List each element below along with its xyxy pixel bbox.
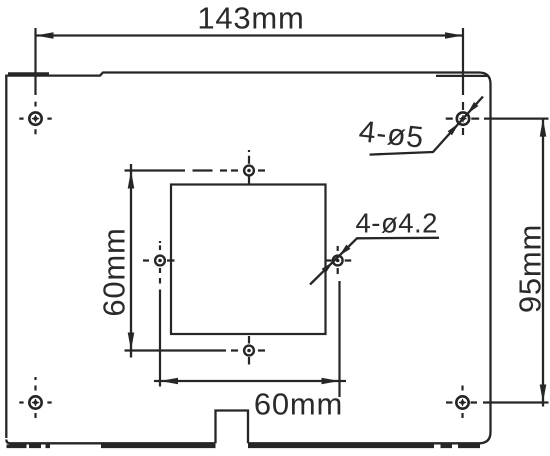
dimension 143mm: text	[197, 0, 304, 35]
svg-text:4-ø4.2: 4-ø4.2	[356, 208, 438, 239]
hole H2 top-right (ø5)	[446, 102, 480, 135]
hole H1 top-left (ø5)	[19, 102, 51, 135]
bottom mounting tab (notch)	[216, 411, 249, 444]
dimension 60mm vertical: text (rotated)	[96, 227, 131, 316]
dimension 60mm horizontal: extension line right (from hole R)	[338, 281, 340, 397]
svg-text:143mm: 143mm	[197, 0, 304, 35]
hole T top-center (ø4.2)	[231, 150, 265, 184]
dimension 60mm horizontal: text	[254, 387, 343, 422]
dimension 95mm: dimension line with arrows	[540, 119, 547, 407]
dimension 143mm: extension line left	[34, 28, 36, 95]
dimension 95mm: extension line bottom (from H3)	[483, 401, 549, 403]
dimension 60mm vertical: extension line bottom	[125, 349, 227, 351]
hole L left-center (ø4.2)	[143, 241, 175, 284]
panel cutout square	[171, 185, 326, 335]
dimension 60mm vertical: extension line top	[125, 169, 228, 171]
dimension 143mm: dimension line with arrows	[36, 32, 464, 39]
dimension 95mm: extension line top (from H2)	[484, 117, 549, 119]
label 4-ø4.2 text	[356, 208, 438, 239]
dimension 60mm vertical: dimension line with arrows	[128, 164, 135, 358]
svg-text:4-ø5: 4-ø5	[357, 115, 425, 155]
svg-text:60mm: 60mm	[254, 387, 343, 422]
dimension 143mm: extension line right	[462, 28, 464, 95]
hole H4 bottom-left (ø5)	[19, 377, 51, 418]
label 4-ø5 text (slightly tilted)	[357, 115, 425, 155]
bottom foot bar left	[7, 444, 51, 448]
svg-text:95mm: 95mm	[513, 224, 548, 313]
top-left edge tab	[8, 72, 49, 75]
label 4-ø5 leader line	[370, 97, 484, 155]
bottom foot bar right	[101, 444, 480, 448]
label 4-ø4.2 leader line	[310, 238, 439, 285]
dimension 60mm horizontal: dimension line with arrows	[154, 378, 346, 385]
dimension 95mm: text (rotated)	[513, 224, 548, 313]
dimension 60mm horizontal: extension line left (from hole L)	[159, 290, 161, 387]
hole H3 bottom-right (ø5)	[446, 386, 477, 419]
hole R right-center (ø4.2)	[325, 246, 352, 274]
svg-text:60mm: 60mm	[96, 227, 131, 316]
hole B bottom-center (ø4.2)	[231, 336, 265, 365]
top-right edge tab	[436, 75, 488, 77]
plate outline	[6, 73, 490, 444]
